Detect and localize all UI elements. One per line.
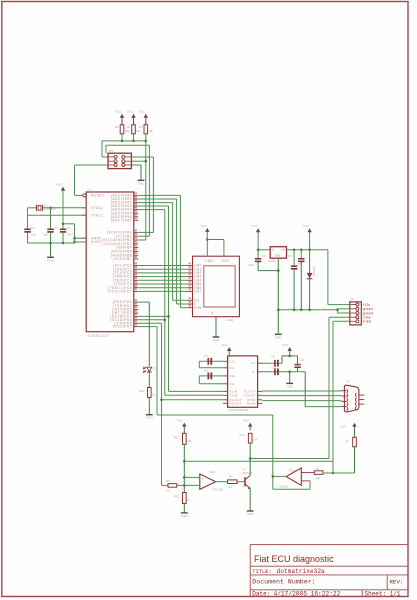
wire R6 to R7 node: [323, 472, 355, 474]
MAX232 pin names: [229, 359, 242, 405]
wire R5 to T1 base: [237, 481, 245, 483]
svg-text:+12V: +12V: [339, 425, 346, 429]
svg-text:GND: GND: [275, 335, 283, 339]
svg-text:VCC: VCC: [127, 110, 134, 114]
wire LED to resistor R10: [148, 372, 150, 387]
svg-text:R13: R13: [240, 433, 246, 437]
op-amp IC3A: [200, 474, 216, 489]
capacitor C5: [293, 250, 295, 266]
MAX232 pin stubs: [223, 361, 262, 403]
wire second left vertical to JP1: [105, 145, 107, 153]
VCC arrow near charge caps: [288, 347, 292, 351]
wire JP1 pin2 right to SCK vertical: [131, 156, 153, 158]
crystal Q1: [38, 205, 41, 210]
svg-text:R/W: R/W: [194, 306, 201, 310]
wire JP1 pin4 right joins R3 net: [131, 160, 145, 162]
op-amp IC3B: [286, 468, 301, 485]
wire PD0 to LED: [138, 301, 149, 303]
svg-text:R7: R7: [345, 439, 349, 443]
wire R11 down: [183, 444, 185, 492]
wire R1IN to X1: [262, 400, 341, 402]
capacitor C1: [24, 228, 30, 230]
wire PD4 joins T1IN vertical: [138, 315, 168, 317]
svg-text:VCC: VCC: [139, 110, 146, 114]
svg-text:C2+: C2+: [229, 374, 236, 378]
wire PD7 down to K-line bus: [138, 326, 157, 328]
svg-text:Fiat ECU diagnostic: Fiat ECU diagnostic: [254, 554, 334, 564]
svg-text:VCC: VCC: [177, 418, 184, 422]
svg-text:ATMEGA16: ATMEGA16: [88, 334, 109, 338]
wire JP1 pin6 to ground: [131, 164, 141, 166]
svg-text:GND: GND: [47, 258, 55, 262]
svg-text:C11: C11: [271, 366, 276, 370]
svg-text:100n: 100n: [67, 232, 74, 236]
ground below T1: [247, 510, 254, 512]
svg-text:GND: GND: [213, 338, 221, 342]
wire K-line vertical to comparator output: [272, 415, 274, 489]
wire LCD ground: [215, 317, 217, 337]
svg-text:GND: GND: [247, 512, 255, 516]
svg-text:(TOSC2)PC7: (TOSC2)PC7: [108, 290, 133, 294]
wire MOSI vertical to PB2: [145, 161, 147, 240]
svg-text:C1+: C1+: [229, 359, 236, 363]
wire PB0 to SCK net: [138, 231, 153, 233]
resistor R13 collector pull-up: [249, 426, 251, 430]
svg-text:VCC: VCC: [251, 224, 258, 228]
svg-text:GND: GND: [138, 181, 146, 185]
display LCD1: [193, 256, 240, 317]
svg-text:1k1: 1k1: [166, 489, 171, 493]
svg-text:X1: X1: [346, 380, 350, 384]
svg-text:GND: GND: [275, 254, 281, 258]
wire AVCC branch: [63, 223, 75, 225]
wire VCC to diode: [309, 232, 311, 250]
svg-text:VCC: VCC: [56, 183, 63, 187]
svg-text:VCC: VCC: [282, 343, 289, 347]
wire R3 lead: [145, 121, 147, 125]
svg-text:Date:: Date:: [252, 590, 270, 597]
svg-text:JP1: JP1: [109, 149, 115, 153]
resistor R2: [132, 125, 136, 134]
wire AREF: [75, 237, 87, 239]
wire L-line vertical: [329, 316, 350, 318]
wire down to C1: [27, 208, 29, 230]
VCC supply arrow above resistor R3: [144, 114, 148, 118]
svg-text:V-: V-: [252, 370, 256, 374]
svg-text:VCC: VCC: [303, 224, 310, 228]
svg-text:GND: GND: [286, 384, 294, 388]
wire JP1 pin5 to reset: [75, 164, 109, 166]
wire resistor to ground: [148, 398, 150, 415]
svg-text:22p: 22p: [43, 232, 48, 236]
svg-text:GND: GND: [181, 514, 189, 518]
voltage regulator IC2 78L05: [270, 247, 286, 259]
VCC arrow second at regulator: [307, 228, 311, 232]
svg-text:VCC: VCC: [243, 418, 250, 422]
wire V+ top link: [282, 355, 298, 357]
svg-text:R11: R11: [174, 436, 179, 440]
ground at V- cap: [289, 372, 291, 383]
svg-text:AVCC: AVCC: [91, 240, 102, 244]
wire PD5 joins T2IN vertical: [138, 319, 165, 321]
wire left vertical into JP1 pin 1: [101, 141, 103, 157]
svg-text:XTAL2: XTAL2: [91, 206, 103, 210]
IC1 right pin numbers: [135, 192, 137, 325]
resistor R7 pull-up to +12V: [354, 447, 356, 473]
capacitor C4: [257, 250, 259, 259]
reset inversion bubble: [83, 194, 86, 197]
resistor R6: [314, 471, 323, 475]
svg-text:10k: 10k: [136, 129, 141, 133]
svg-text:GND: GND: [146, 416, 154, 420]
wire R4 to IC3A minus input: [177, 484, 196, 486]
wire X2 ground pins: [338, 308, 350, 310]
wire SCK vertical to PB0: [152, 157, 154, 232]
svg-text:R2OUT: R2OUT: [229, 401, 242, 405]
svg-text:IC3B: IC3B: [289, 468, 295, 472]
svg-text:IC1: IC1: [88, 188, 93, 192]
svg-text:R5: R5: [229, 475, 233, 479]
svg-text:T2IN: T2IN: [229, 393, 237, 397]
svg-text:VO: VO: [281, 248, 285, 252]
svg-text:TITLE:: TITLE:: [252, 569, 271, 575]
svg-text:C2: C2: [54, 226, 58, 230]
X1 left pin contacts: [347, 389, 357, 410]
wire +12v to regulator: [328, 304, 350, 306]
svg-text:VCC: VCC: [222, 343, 229, 347]
wire PA2 to LCD RS: [138, 202, 172, 204]
wire T1 emitter to ground: [249, 488, 251, 510]
resistor R3: [144, 125, 148, 134]
svg-text:10k: 10k: [125, 129, 130, 133]
svg-text:VCC: VCC: [115, 110, 122, 114]
svg-text:78L05: 78L05: [268, 259, 277, 263]
svg-text:(SCK)PB7: (SCK)PB7: [113, 257, 132, 261]
svg-text:C2-: C2-: [229, 382, 235, 386]
svg-text:IC3A: IC3A: [209, 470, 215, 474]
wire bus top horizontal 2: [106, 144, 149, 146]
svg-text:V+: V+: [251, 361, 256, 365]
wire K-line long horizontal: [157, 414, 273, 416]
wire PB2 to MOSI net: [138, 239, 146, 241]
wire R4 row: [162, 484, 169, 486]
connector JP1: [108, 153, 131, 168]
wire PA1 to LCD E: [138, 198, 176, 200]
interface IC5 MAX232: [228, 356, 258, 407]
svg-text:K-line: K-line: [363, 320, 372, 324]
wire XTAL2 net: [28, 207, 37, 209]
svg-text:C3: C3: [67, 226, 71, 230]
wire LCD supply: [206, 232, 208, 257]
svg-text:R3: R3: [139, 125, 143, 129]
resistor R1: [120, 125, 124, 134]
IC1 right pin stubs: [134, 195, 139, 326]
VCC arrow at MAX232 pin 16: [227, 347, 231, 351]
wire bus top horizontal 1: [102, 140, 146, 142]
VCC arrow at regulator output: [256, 228, 260, 232]
transistor T1 BC548: [244, 477, 246, 486]
svg-text:1N4148: 1N4148: [312, 266, 316, 276]
wire PD6 long vertical to R1OUT and R4: [138, 322, 161, 324]
diode D1: [309, 250, 311, 273]
svg-text:T2OUT: T2OUT: [244, 393, 256, 397]
wire R3 down to JP1 net: [145, 134, 147, 161]
ground below regulator: [277, 310, 279, 334]
wire K-line vertical: [333, 320, 350, 322]
wire IC3A output: [216, 481, 228, 483]
svg-text:10k: 10k: [148, 129, 153, 133]
IC1 pin names: [101, 194, 132, 329]
svg-text:RESET: RESET: [91, 194, 105, 198]
wire PA4 down to MAX232 T2IN: [138, 209, 165, 211]
ground below R10: [146, 414, 153, 416]
wire T1OUT to X1: [262, 390, 341, 392]
svg-text:C4: C4: [262, 254, 266, 258]
svg-text:10k: 10k: [253, 438, 258, 442]
resistor R5: [228, 480, 237, 484]
X2 pin labels: [363, 303, 374, 324]
wire V- to DB9 shield: [304, 372, 306, 407]
svg-text:4/17/2005 16:22:22: 4/17/2005 16:22:22: [274, 590, 341, 597]
wire R2 lead: [133, 121, 135, 125]
wire regulator input rail: [287, 249, 328, 251]
connector X1 DB9: [344, 385, 359, 412]
VCC supply arrow above resistor R1: [120, 114, 124, 118]
svg-text:R1: R1: [115, 125, 119, 129]
junction crystal right: [49, 207, 52, 210]
ground below capacitors: [50, 243, 52, 257]
wire IC3B upper input to R6: [301, 472, 314, 474]
ground below R12: [181, 512, 188, 514]
svg-text:LT1013D: LT1013D: [276, 485, 287, 489]
X1 pin stubs: [341, 391, 364, 407]
IC1 left pin stubs: [82, 208, 87, 242]
svg-text:22p: 22p: [31, 232, 36, 236]
wire R1 lead: [121, 121, 123, 125]
wire to IC3A plus input: [184, 476, 195, 478]
capacitor C2: [47, 228, 53, 230]
svg-text:C8: C8: [204, 369, 208, 373]
capacitor C8 charge pump loop: [199, 375, 223, 377]
svg-text:VI: VI: [272, 248, 275, 252]
svg-text:DB7: DB7: [194, 290, 201, 294]
svg-text:(ADC7)PA7: (ADC7)PA7: [111, 218, 132, 222]
wire T1 collector up: [249, 459, 251, 476]
svg-text:REV:: REV:: [390, 579, 404, 586]
+12V arrow above R7: [352, 423, 356, 427]
wire K-line net down to R6 node: [332, 461, 334, 473]
svg-text:VCC: VCC: [201, 224, 208, 228]
wire bus PC0-PC7 to LCD data: [138, 265, 188, 267]
wire capacitor ground rail: [28, 242, 75, 244]
wire L-line to collector node: [250, 458, 329, 460]
wire K-line to comparator node: [184, 460, 333, 462]
svg-text:dotmatrixe32a: dotmatrixe32a: [277, 568, 326, 575]
resistor R10: [148, 388, 152, 398]
wire XTAL1 net: [28, 214, 87, 216]
svg-text:C1: C1: [31, 226, 35, 230]
svg-text:Document Number:: Document Number:: [252, 579, 315, 586]
svg-text:VSS: VSS: [222, 259, 230, 263]
wire PA0 to LCD RW: [138, 194, 180, 196]
svg-text:R6: R6: [316, 467, 320, 471]
wire ground rail under regulator: [278, 309, 337, 311]
resistor R11: [183, 426, 185, 433]
wire regulator ground pin: [277, 258, 279, 310]
svg-text:C9: C9: [271, 354, 275, 358]
svg-text:R12: R12: [174, 495, 180, 499]
svg-text:10k: 10k: [187, 439, 192, 443]
wire PB1 to MISO net: [138, 235, 149, 237]
svg-text:R2: R2: [127, 125, 131, 129]
LCD1 pin names: [194, 259, 229, 315]
svg-text:R10: R10: [139, 389, 145, 393]
wire regulator output rail: [257, 232, 259, 250]
wire R1OUT horizontal: [162, 399, 224, 401]
wire IC3B lower input feedback: [301, 480, 310, 482]
capacitor C6: [300, 250, 302, 259]
junction R2 bottom: [133, 134, 135, 141]
LCD1 left pin stubs: [188, 266, 193, 308]
wire MISO vertical to PB1: [148, 145, 150, 236]
svg-text:+: +: [202, 477, 204, 481]
junction R1 bottom: [121, 134, 123, 141]
svg-text:C6: C6: [288, 254, 292, 258]
capacitor C11 on V-: [262, 371, 305, 373]
VCC arrow AVCC supply: [61, 187, 65, 191]
svg-text:(OC2)PD7: (OC2)PD7: [113, 325, 132, 329]
VCC arrow above R13: [248, 423, 252, 427]
svg-text:XTAL1: XTAL1: [91, 213, 103, 217]
VCC arrow above LCD1: [205, 228, 209, 232]
wire down to C2: [50, 208, 52, 230]
svg-text:C10: C10: [300, 358, 306, 362]
capacitor C3: [60, 228, 66, 230]
connector X2 diagnostic plug: [350, 302, 362, 325]
capacitor C9 on V+: [262, 362, 282, 364]
capacitor C10: [297, 356, 299, 365]
svg-text:VDD: VDD: [205, 259, 213, 263]
ground below JP1: [138, 179, 145, 181]
svg-text:Sheet: 1/1: Sheet: 1/1: [365, 590, 401, 597]
svg-text:C7: C7: [204, 354, 208, 358]
svg-text:C1-: C1-: [229, 366, 235, 370]
JP1 pin leads: [108, 156, 114, 158]
wire AVCC: [75, 241, 87, 243]
wire VCC down to C3: [62, 190, 64, 229]
svg-text:R2IN: R2IN: [247, 401, 256, 405]
svg-text:X2: X2: [350, 297, 354, 301]
wire IC3B output to K-line bus: [273, 475, 286, 477]
svg-text:MAX232ECPE: MAX232ECPE: [228, 408, 248, 412]
svg-text:D2: D2: [153, 367, 157, 371]
svg-text:LT1013D: LT1013D: [212, 487, 223, 491]
wire T2OUT to X1: [262, 395, 341, 397]
resistor R12 to ground: [183, 493, 187, 504]
svg-text:10k: 10k: [316, 476, 321, 480]
microcontroller IC1 ATMEGA16: [86, 192, 134, 332]
svg-text:LCD1: LCD1: [226, 318, 234, 322]
wire PA3 down to MAX232 T1IN: [138, 205, 168, 207]
capacitor C7 charge pump loop: [199, 360, 223, 362]
VCC supply arrow above resistor R2: [131, 114, 135, 118]
ground below LCD1: [213, 336, 220, 338]
title block: [250, 545, 408, 597]
VCC arrow above R11: [182, 423, 186, 427]
svg-text:R4: R4: [166, 479, 170, 483]
LED D2: [147, 367, 152, 372]
svg-text:100n: 100n: [248, 263, 255, 267]
resistor R4: [168, 484, 177, 488]
